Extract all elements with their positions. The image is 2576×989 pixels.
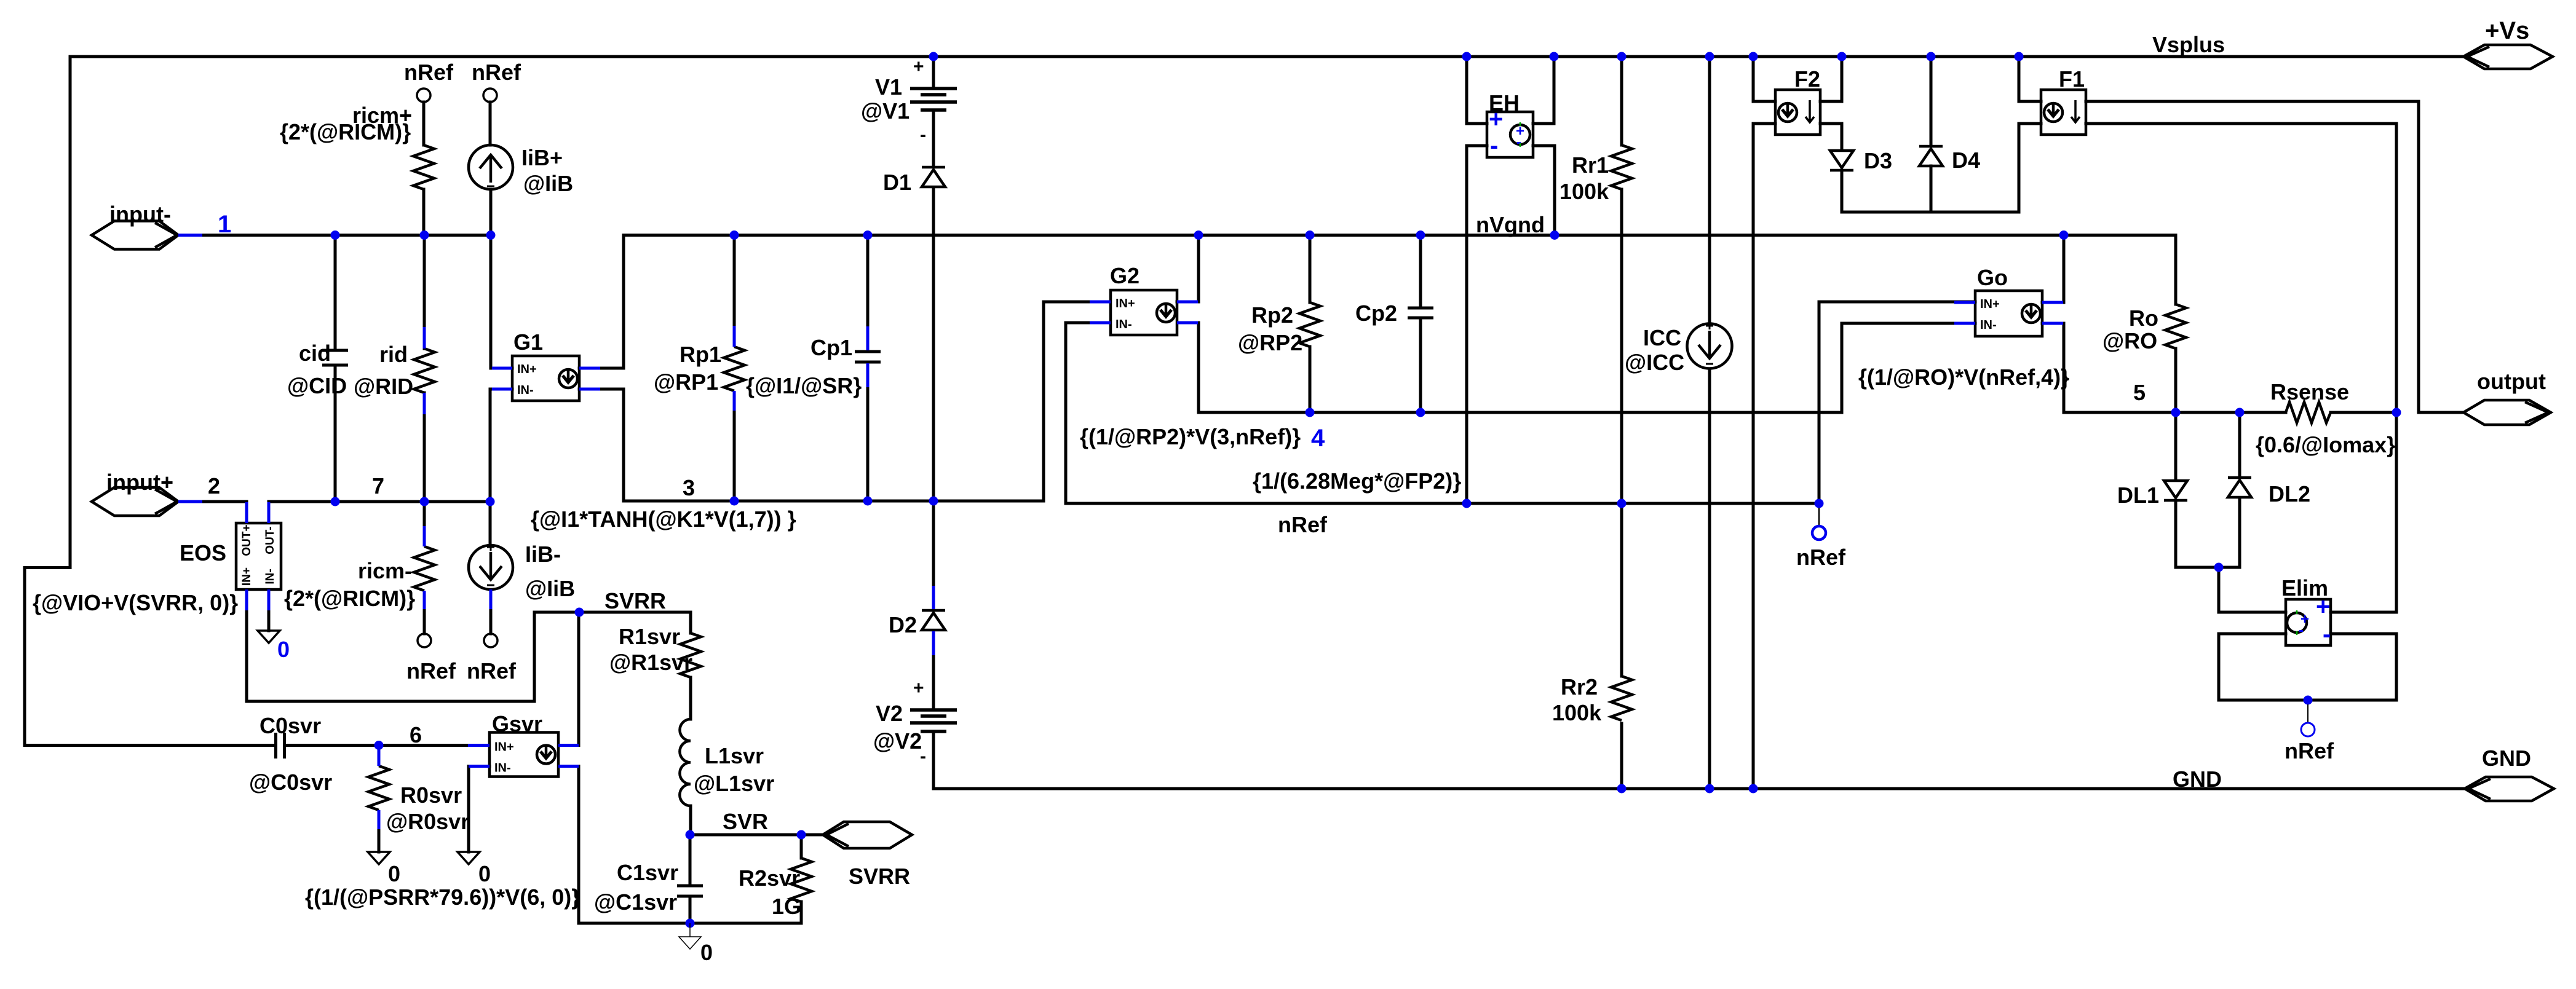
wire cid branch — [334, 235, 337, 351]
Rp1 pin stubs — [733, 326, 736, 347]
resistor ricm+ — [413, 145, 434, 189]
ground 0 R0svr — [368, 852, 390, 864]
wire DL2 branch — [2238, 412, 2241, 476]
svg-text:-: - — [2323, 621, 2331, 648]
svg-text:F2: F2 — [1794, 66, 1820, 92]
svg-text:input-: input- — [109, 202, 171, 227]
svg-text:input+: input+ — [106, 470, 173, 495]
current source ICC — [1687, 322, 1732, 369]
svg-text:IN+: IN+ — [1980, 297, 2000, 311]
resistor R2svr — [791, 858, 812, 902]
ground 0 EOS — [258, 631, 280, 643]
voltage source box Elim — [2286, 599, 2331, 645]
svg-text:IiB-: IiB- — [525, 542, 561, 567]
svg-text:ICC: ICC — [1643, 325, 1681, 350]
IiB- pin stub — [489, 589, 493, 609]
wire Ro bottom — [2174, 349, 2178, 412]
wire ricm- iib- chain — [423, 502, 426, 526]
rid pin stubs — [423, 327, 426, 349]
svg-text:Rp1: Rp1 — [680, 342, 721, 367]
port GND — [2465, 777, 2554, 801]
svg-text:R1svr: R1svr — [619, 624, 680, 649]
capacitor cid — [322, 350, 348, 365]
svg-text:0: 0 — [478, 861, 491, 886]
resistor Rsense — [2286, 402, 2331, 423]
resistor ricm- — [414, 546, 435, 591]
svg-text:nRef: nRef — [1278, 512, 1328, 537]
capacitor Cp2 — [1408, 308, 1433, 318]
op-amp macro box Gsvr — [489, 733, 558, 777]
svg-text:@R1svr: @R1svr — [609, 650, 692, 675]
svg-text:+: + — [913, 57, 924, 77]
svg-text:@V1: @V1 — [861, 98, 910, 124]
capacitor C0svr — [276, 733, 285, 758]
wire G1 out+ — [579, 367, 624, 370]
svg-text:@R0svr: @R0svr — [386, 809, 469, 834]
wire C1svr chain — [689, 835, 692, 885]
capacitor C1svr — [677, 886, 703, 896]
port output — [2463, 400, 2551, 425]
wire F2 left pins — [1753, 57, 1775, 101]
svg-text:Go: Go — [1977, 265, 2008, 290]
svg-text:{(1/@RP2)*V(3,nRef)}: {(1/@RP2)*V(3,nRef)} — [1080, 424, 1301, 449]
resistor Rp1 — [724, 347, 745, 391]
svg-text:0: 0 — [388, 861, 400, 886]
G1 pin stubs — [492, 367, 512, 370]
wire ricm+ nRef stem — [422, 102, 426, 145]
EOS pin stubs — [245, 502, 248, 523]
svg-text:1: 1 — [218, 211, 231, 238]
svg-text:-: - — [2299, 622, 2304, 639]
svg-text:@L1svr: @L1svr — [694, 771, 774, 796]
svg-text:100k: 100k — [1559, 179, 1609, 204]
current source IiB+ — [469, 145, 513, 189]
svg-text:{2*(@RICM)}: {2*(@RICM)} — [284, 586, 415, 611]
wire EH out+ — [1533, 57, 1554, 124]
svg-text:{2*(@RICM)}: {2*(@RICM)} — [280, 119, 411, 144]
svg-text:@RP2: @RP2 — [1238, 330, 1302, 355]
svg-text:-: - — [1490, 132, 1498, 159]
battery V2 — [910, 710, 957, 731]
svg-text:5: 5 — [2133, 380, 2146, 405]
Gsvr pin stubs — [468, 744, 489, 747]
svg-text:GND: GND — [2482, 746, 2531, 771]
wire D2 V2 chain — [932, 501, 935, 586]
svg-text:Rp2: Rp2 — [1251, 302, 1293, 328]
wire Elim out+ — [2331, 412, 2396, 612]
svg-text:nRef: nRef — [404, 60, 454, 85]
svg-text:nRef: nRef — [467, 658, 517, 684]
port input+ — [92, 487, 178, 516]
wire Rr1 Rr2 column — [1620, 57, 1623, 145]
svg-text:0: 0 — [277, 637, 290, 662]
svg-text:V1: V1 — [875, 74, 902, 100]
svg-text:D1: D1 — [883, 170, 911, 195]
voltage source box EOS — [236, 523, 281, 589]
svg-text:output: output — [2477, 369, 2546, 394]
wire R2svr top stub — [800, 835, 803, 858]
svg-text:Ro: Ro — [2129, 305, 2158, 331]
svg-text:G1: G1 — [513, 329, 543, 355]
svg-text:@IiB: @IiB — [523, 171, 573, 196]
wire F2 right pins — [1820, 57, 1842, 101]
svg-text:{(1/@RO)*V(nRef,4)}: {(1/@RO)*V(nRef,4)} — [1858, 364, 2069, 390]
diode DL2 — [2228, 478, 2251, 497]
resistor R1svr — [680, 633, 701, 677]
svg-text:nRef: nRef — [472, 60, 521, 85]
resistor Ro — [2165, 304, 2186, 349]
svg-text:Rr2: Rr2 — [1561, 674, 1598, 699]
svg-text:IN+: IN+ — [494, 741, 514, 754]
svg-text:nRef: nRef — [2285, 738, 2334, 763]
svg-text:@IiB: @IiB — [525, 576, 575, 601]
svg-text:3: 3 — [683, 475, 695, 500]
battery V1 — [910, 89, 957, 110]
Cp1 pin stubs — [866, 326, 870, 350]
port SVRR — [823, 822, 912, 848]
diode D3 — [1830, 151, 1853, 170]
svg-text:@RP1: @RP1 — [654, 369, 718, 395]
wire EH out- to nVgnd — [1533, 146, 1555, 235]
wire F1 right top to output — [2086, 101, 2463, 412]
svg-text:Gsvr: Gsvr — [492, 711, 542, 736]
resistor Rr2 — [1611, 676, 1632, 720]
terminal nRef top left — [417, 89, 430, 102]
op-amp macro box G1 — [512, 356, 579, 401]
wire G1 in- — [490, 389, 512, 502]
current source IiB- — [469, 543, 513, 589]
svg-text:+Vs: +Vs — [2485, 17, 2529, 44]
svg-text:6: 6 — [410, 722, 422, 747]
terminal nRef elim blue — [2307, 704, 2308, 723]
wire G1 out- — [579, 388, 624, 391]
wire Elim in+ — [2219, 567, 2286, 612]
svg-text:100k: 100k — [1552, 700, 1602, 725]
wire Cp2 branch — [1419, 235, 1422, 309]
svg-text:Rsense: Rsense — [2270, 379, 2349, 404]
svg-text:R2svr: R2svr — [739, 865, 800, 891]
svg-text:Rr1: Rr1 — [1572, 152, 1609, 178]
svg-text:{(1/(@PSRR*79.6))*V(6, 0)}: {(1/(@PSRR*79.6))*V(6, 0)} — [305, 885, 580, 910]
capacitor Cp1 — [855, 352, 881, 362]
wire Gsvr out- chain — [579, 766, 801, 924]
svg-text:Cp2: Cp2 — [1355, 301, 1397, 326]
svg-text:IN-: IN- — [1116, 318, 1132, 331]
svg-text:IN-: IN- — [494, 762, 511, 775]
svg-text:IN+: IN+ — [517, 363, 537, 376]
wire EOS in+ loop — [247, 610, 691, 701]
svg-text:{0.6/@Iomax}: {0.6/@Iomax} — [2256, 432, 2395, 457]
port +Vs — [2463, 45, 2553, 69]
wire rid branch — [423, 235, 426, 349]
svg-text:cid: cid — [299, 341, 331, 366]
D2 pin stubs — [932, 586, 935, 609]
svg-text:IN+: IN+ — [240, 567, 253, 586]
svg-text:@ICC: @ICC — [1625, 350, 1684, 375]
svg-text:2: 2 — [208, 473, 220, 498]
wire node-2 — [178, 500, 247, 503]
svg-text:IN-: IN- — [517, 384, 534, 397]
wire Rp1 branch — [733, 235, 736, 326]
terminal nRef mid blue — [1818, 508, 1820, 526]
wire top Vsplus rail and left border down to C0svr — [25, 57, 2463, 746]
svg-text:-: - — [920, 746, 926, 766]
svg-text:OUT+: OUT+ — [240, 524, 253, 556]
current source box F1 — [2041, 90, 2086, 135]
svg-text:R0svr: R0svr — [400, 782, 462, 808]
svg-text:nRef: nRef — [406, 658, 456, 684]
svg-text:@RO: @RO — [2102, 328, 2157, 353]
svg-text:@V2: @V2 — [873, 728, 922, 754]
blue pin stubs — [247, 302, 2063, 829]
G2 pin stubs — [1090, 301, 1111, 304]
svg-text:+: + — [913, 678, 924, 698]
wire Elim nref loop — [2219, 634, 2396, 700]
current source box F2 — [1775, 90, 1820, 135]
wire F1 right bottom to node5 — [2086, 124, 2396, 412]
wire IiB+ stems — [489, 102, 492, 145]
wire node-6 — [285, 744, 468, 747]
terminal nRef bottom left — [418, 634, 431, 647]
wire G1 in+ — [491, 235, 512, 369]
svg-text:nVgnd: nVgnd — [1476, 212, 1545, 237]
wire Go in+ nRef branch — [1819, 302, 1975, 503]
wire V1 D1 chain — [932, 57, 935, 87]
wire ICC column — [1708, 57, 1711, 323]
wire EH in- to nRef — [1467, 146, 1487, 503]
svg-text:D4: D4 — [1952, 148, 1980, 173]
svg-text:{@VIO+V(SVRR, 0)}: {@VIO+V(SVRR, 0)} — [33, 590, 238, 615]
wire GND rail — [933, 733, 2465, 789]
svg-text:@C0svr: @C0svr — [249, 770, 332, 795]
svg-text:IN-: IN- — [264, 569, 277, 584]
svg-text:@CID: @CID — [287, 373, 347, 398]
ground 0 Gsvr — [458, 852, 480, 864]
svg-text:@C1svr: @C1svr — [594, 889, 677, 915]
wire node-1 rail — [178, 234, 491, 237]
ground 0 C1svr — [689, 923, 691, 937]
svg-text:rid: rid — [379, 342, 408, 367]
wire Gsvr in- to gnd — [469, 766, 489, 853]
wire G2 in- to nRef rail — [1066, 323, 1819, 503]
wire F1 left top — [2019, 57, 2041, 101]
svg-text:F1: F1 — [2059, 66, 2085, 92]
resistor R0svr — [368, 766, 389, 810]
svg-text:ricm-: ricm- — [358, 558, 412, 583]
ricm- pin stubs — [423, 526, 426, 546]
svg-text:IN-: IN- — [1980, 318, 1997, 332]
svg-text:GND: GND — [2173, 766, 2222, 792]
svg-text:V2: V2 — [876, 701, 903, 726]
terminal nRef top right — [483, 89, 497, 102]
wire R0svr stem — [378, 746, 381, 749]
voltage source box EH — [1487, 112, 1533, 157]
svg-text:SVRR: SVRR — [849, 864, 910, 889]
wire DL1 branch — [2174, 412, 2178, 480]
wire nVgnd rail — [624, 235, 2176, 369]
svg-text:{@I1/@SR}: {@I1/@SR} — [746, 373, 862, 398]
svg-text:IiB+: IiB+ — [521, 145, 563, 170]
svg-text:-: - — [920, 125, 926, 145]
wire EH in+ — [1467, 57, 1487, 124]
wire node-3 rail — [624, 302, 1090, 501]
wire R1svr chain — [689, 677, 692, 719]
svg-text:DL1: DL1 — [2117, 483, 2159, 508]
resistor rid — [414, 349, 435, 393]
svg-text:IN+: IN+ — [1116, 297, 1135, 310]
svg-text:nRef: nRef — [1796, 545, 1846, 570]
op-amp macro box Go — [1975, 291, 2042, 336]
svg-text:SVRR: SVRR — [604, 588, 666, 613]
svg-text:Cp1: Cp1 — [810, 335, 852, 360]
wire Rp2 branch — [1309, 235, 1312, 303]
wire node-4 rail — [1199, 323, 1975, 412]
svg-text:EH: EH — [1489, 90, 1520, 116]
svg-text:{1/(6.28Meg*@FP2)}: {1/(6.28Meg*@FP2)} — [1253, 468, 1461, 494]
svg-text:DL2: DL2 — [2269, 481, 2310, 506]
diode D4 — [1919, 146, 1943, 166]
svg-text:OUT-: OUT- — [264, 526, 277, 554]
svg-text:1G: 1G — [772, 894, 801, 919]
inductor L1svr — [680, 719, 691, 806]
diode D1 — [922, 167, 945, 187]
wire node-7 rail — [269, 500, 490, 503]
wire D4 stem — [1930, 57, 1933, 145]
wire Go out- node5 — [2042, 323, 2286, 412]
svg-text:EOS: EOS — [180, 540, 226, 565]
wire G2 out+ — [1177, 235, 1199, 302]
svg-text:-: - — [1516, 134, 1521, 151]
svg-text:@RID: @RID — [354, 374, 413, 399]
svg-text:0: 0 — [700, 940, 713, 965]
terminal nRef bottom right — [484, 634, 497, 647]
svg-text:D2: D2 — [889, 612, 917, 637]
port input- — [92, 221, 178, 250]
wire D3 D4 return — [1842, 124, 2041, 212]
wire SVR rail — [690, 833, 823, 837]
op-amp macro box G2 — [1111, 290, 1177, 335]
wire EOS in- stem — [268, 610, 271, 631]
svg-text:C1svr: C1svr — [617, 860, 678, 885]
svg-text:7: 7 — [372, 473, 384, 498]
svg-text:Elim: Elim — [2281, 575, 2328, 601]
svg-text:Vsplus: Vsplus — [2152, 32, 2225, 57]
svg-text:4: 4 — [1311, 425, 1325, 452]
Go pin stubs — [1954, 301, 1975, 304]
diode DL1 — [2164, 481, 2187, 500]
wire ricm+ bottom — [422, 189, 426, 235]
wire Go out+ — [2042, 235, 2064, 303]
wire SVRR to Gsvr out+ — [577, 612, 581, 746]
diode D2 — [922, 610, 945, 630]
svg-text:SVR: SVR — [723, 809, 768, 834]
svg-text:G2: G2 — [1110, 263, 1139, 288]
svg-text:C0svr: C0svr — [260, 713, 321, 738]
wire Cp1 branch — [866, 235, 870, 327]
svg-text:D3: D3 — [1864, 148, 1892, 173]
svg-text:{@I1*TANH(@K1*V(1,7)) }: {@I1*TANH(@K1*V(1,7)) } — [531, 506, 796, 532]
resistor Rp2 — [1299, 302, 1320, 347]
resistor Rr1 — [1611, 145, 1632, 189]
svg-text:L1svr: L1svr — [705, 743, 764, 768]
R0svr pin stubs — [378, 749, 381, 766]
